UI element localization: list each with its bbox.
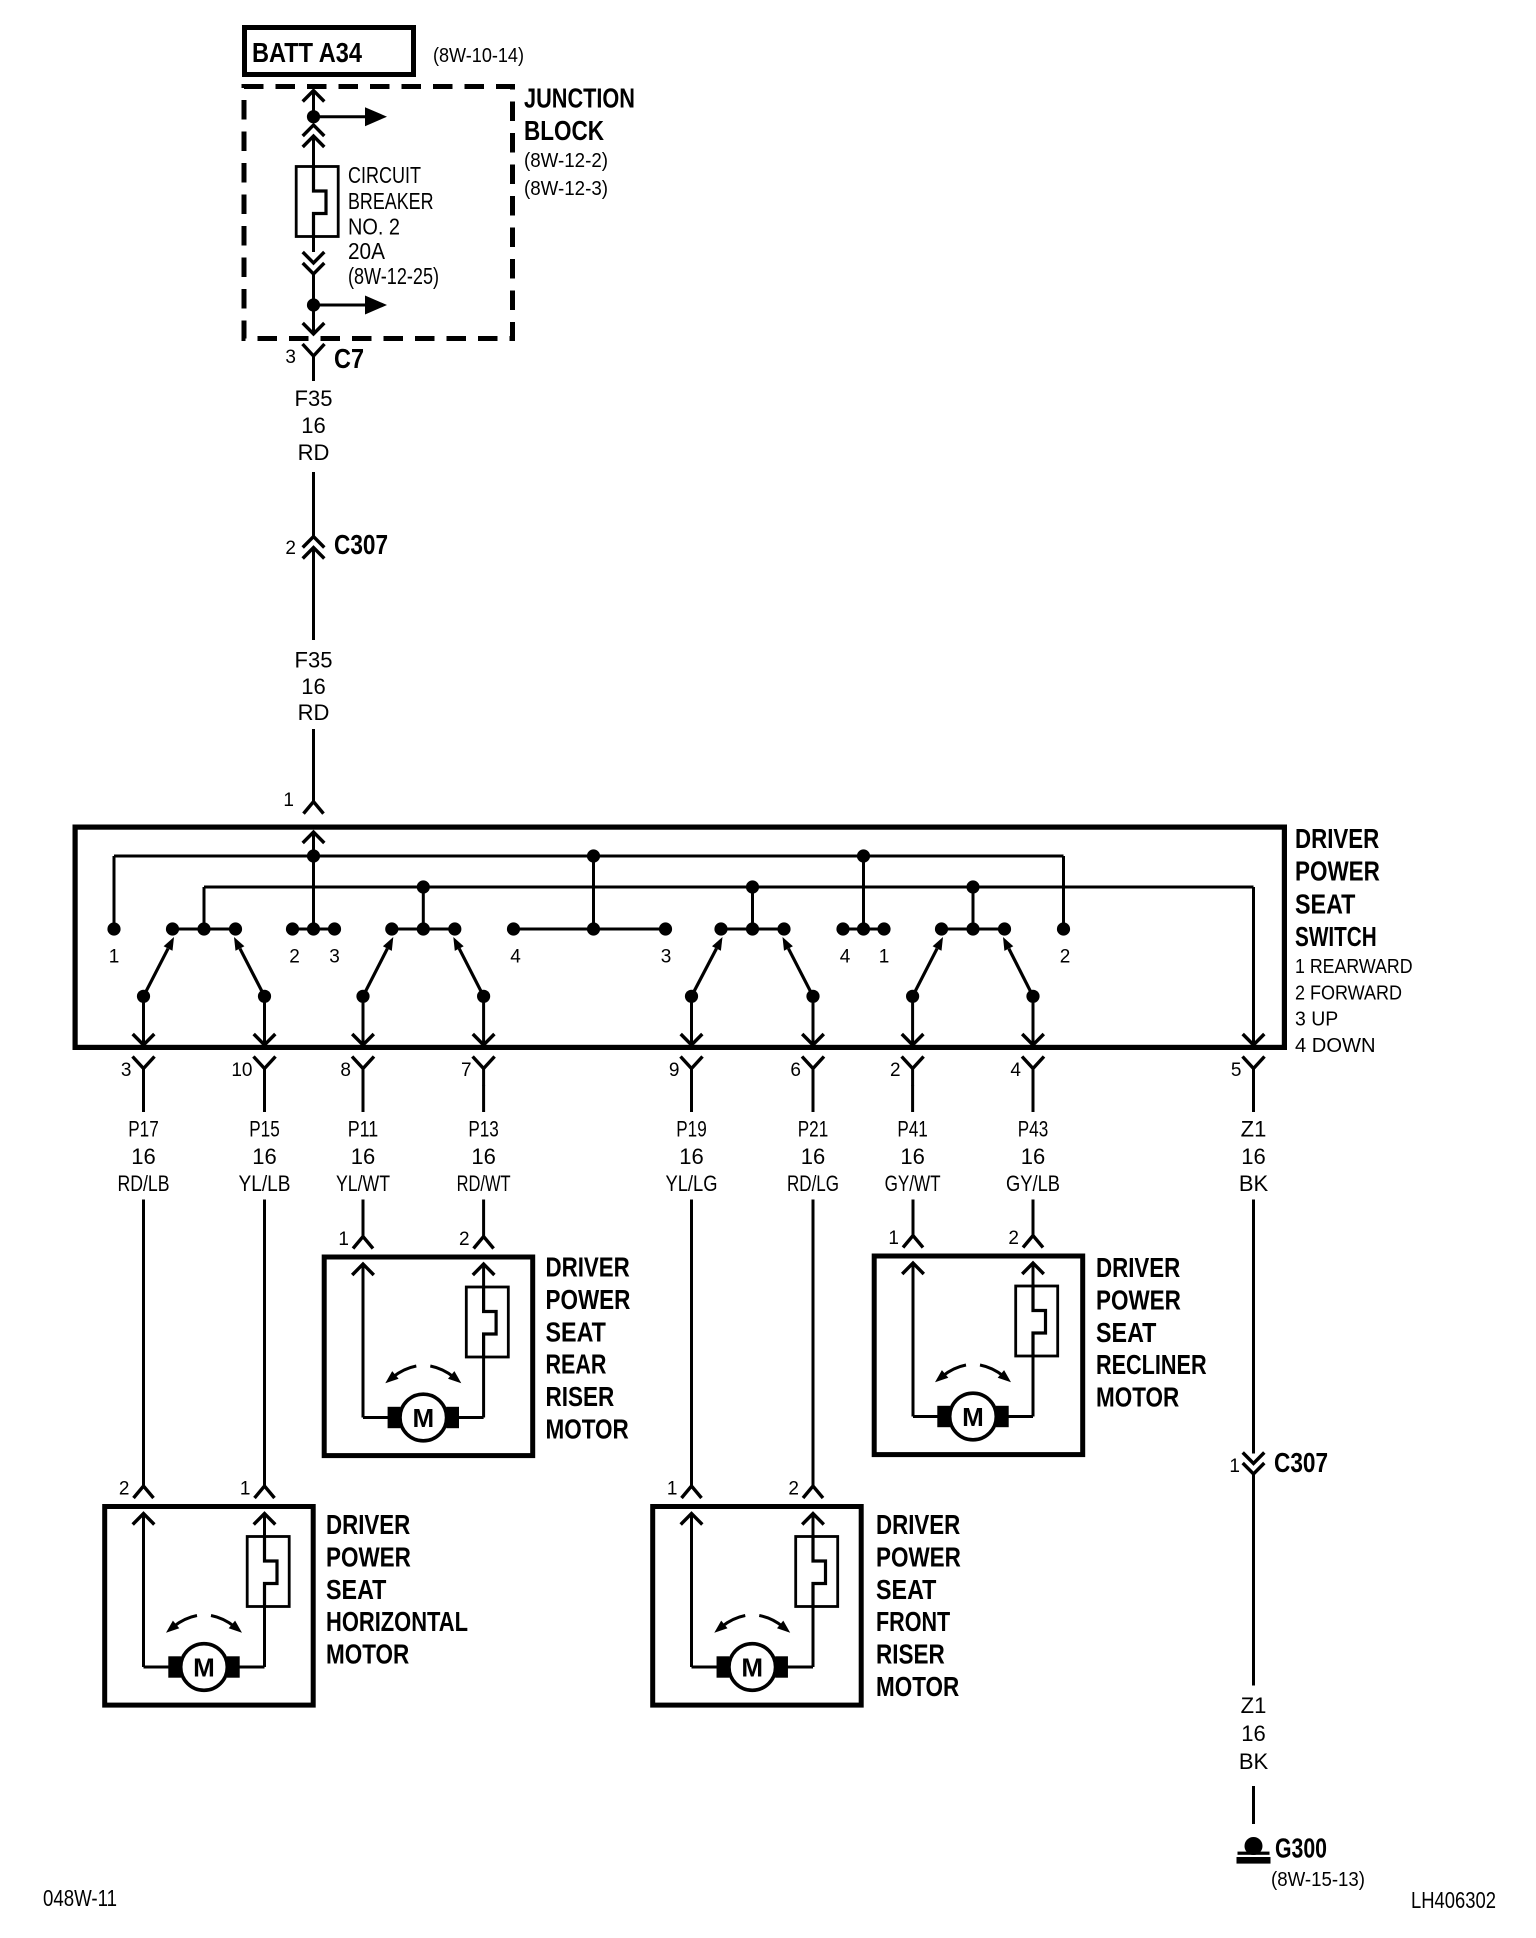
driver power seat recliner motor box <box>874 1256 1082 1455</box>
svg-text:RD/LB: RD/LB <box>118 1171 170 1196</box>
svg-text:CIRCUIT: CIRCUIT <box>348 162 421 188</box>
svg-text:POWER: POWER <box>546 1284 631 1315</box>
circuit breaker no. 2 20A symbol <box>296 167 338 237</box>
svg-text:16: 16 <box>679 1144 703 1169</box>
svg-text:16: 16 <box>301 413 325 438</box>
svg-text:(8W-12-2): (8W-12-2) <box>524 150 608 172</box>
svg-text:LH406302: LH406302 <box>1411 1887 1496 1913</box>
svg-text:P11: P11 <box>348 1117 379 1142</box>
svg-text:2: 2 <box>1060 947 1071 968</box>
in-block connector chevrons upper <box>303 125 325 136</box>
driver power seat recliner motor motor M <box>937 1406 950 1427</box>
switch wiper contacts - recliner section <box>942 928 1005 931</box>
switch pin exit wires with arrows <box>142 996 145 1045</box>
svg-text:RECLINER: RECLINER <box>1096 1349 1207 1380</box>
switch wiper contacts - rear riser section <box>392 928 455 931</box>
svg-text:DRIVER: DRIVER <box>546 1252 630 1283</box>
driver power seat horizontal motor pin 2 connector (wire ) <box>142 1200 145 1487</box>
svg-text:16: 16 <box>1241 1144 1265 1169</box>
svg-text:POWER: POWER <box>1295 856 1380 887</box>
svg-text:M: M <box>962 1402 984 1432</box>
svg-text:DRIVER: DRIVER <box>1096 1252 1180 1283</box>
svg-text:1: 1 <box>888 1228 899 1249</box>
svg-text:8: 8 <box>340 1060 351 1081</box>
svg-text:BK: BK <box>1239 1171 1269 1196</box>
svg-text:Z1: Z1 <box>1241 1693 1267 1718</box>
svg-text:2: 2 <box>285 538 296 559</box>
svg-text:RISER: RISER <box>876 1639 945 1670</box>
svg-text:GY/LB: GY/LB <box>1006 1171 1060 1196</box>
driver power seat switch box <box>75 827 1284 1047</box>
junction node dot upper <box>307 110 320 123</box>
svg-text:3: 3 <box>661 947 672 968</box>
svg-text:RD: RD <box>298 700 330 725</box>
svg-text:MOTOR: MOTOR <box>326 1639 409 1670</box>
switch wiper arrows and pivots <box>137 990 150 1003</box>
svg-text:3: 3 <box>285 347 296 368</box>
svg-text:BLOCK: BLOCK <box>524 115 604 146</box>
driver power seat front riser motor pin 1 connector (wire ) <box>690 1200 693 1487</box>
svg-text:16: 16 <box>351 1144 375 1169</box>
in-block connector chevrons lower <box>303 252 325 263</box>
svg-text:C307: C307 <box>1274 1447 1328 1478</box>
svg-text:P19: P19 <box>676 1117 707 1142</box>
driver power seat rear riser motor internal circuit breaker <box>466 1287 508 1357</box>
svg-text:9: 9 <box>669 1060 680 1081</box>
driver power seat front riser motor right wire lower <box>812 1607 815 1668</box>
driver power seat recliner motor pin 1 connector (wire ) <box>912 1200 915 1236</box>
driver power seat horizontal motor right wire lower <box>263 1607 266 1668</box>
svg-text:POWER: POWER <box>1096 1284 1181 1315</box>
switch bus row 2 <box>204 886 1254 889</box>
svg-text:3: 3 <box>121 1060 132 1081</box>
svg-text:P15: P15 <box>249 1117 280 1142</box>
branch arrow lower (feed to other circuits) <box>314 304 368 307</box>
svg-text:16: 16 <box>1241 1721 1265 1746</box>
wire to lower junction dot <box>312 274 315 305</box>
driver power seat horizontal motor rotation arrows <box>173 1616 197 1628</box>
switch stationary contact 1 (rearward) <box>107 922 120 935</box>
driver power seat horizontal motor internal circuit breaker <box>247 1537 289 1607</box>
svg-text:MOTOR: MOTOR <box>546 1414 629 1445</box>
svg-text:GY/WT: GY/WT <box>885 1171 941 1196</box>
junction block dashed box <box>244 87 513 339</box>
svg-text:1: 1 <box>667 1479 678 1500</box>
svg-text:M: M <box>412 1403 434 1433</box>
driver power seat rear riser motor box <box>324 1257 533 1456</box>
svg-text:M: M <box>741 1653 763 1683</box>
switch stationary contacts 4,3 (rear riser) <box>514 928 666 931</box>
driver power seat rear riser motor motor M <box>388 1407 401 1428</box>
svg-text:RD/WT: RD/WT <box>457 1171 511 1196</box>
svg-text:16: 16 <box>301 674 325 699</box>
svg-text:20A: 20A <box>348 238 386 264</box>
svg-text:RD/LG: RD/LG <box>787 1171 839 1196</box>
svg-text:C7: C7 <box>334 343 364 374</box>
svg-text:BK: BK <box>1239 1749 1269 1774</box>
svg-text:1: 1 <box>1229 1456 1240 1477</box>
switch stationary contacts 2,3 <box>293 928 335 931</box>
driver power seat horizontal motor right wire <box>254 1514 276 1525</box>
svg-text:2: 2 <box>119 1479 130 1500</box>
svg-text:DRIVER: DRIVER <box>1295 823 1379 854</box>
svg-text:MOTOR: MOTOR <box>876 1671 959 1702</box>
svg-text:1 REARWARD: 1 REARWARD <box>1295 956 1413 978</box>
svg-text:P21: P21 <box>798 1117 829 1142</box>
svg-text:POWER: POWER <box>876 1541 961 1572</box>
svg-text:SEAT: SEAT <box>1096 1317 1156 1348</box>
svg-text:JUNCTION: JUNCTION <box>524 83 635 114</box>
switch feed wire entering box <box>303 832 325 843</box>
battery feed BATT A34 box <box>245 28 414 75</box>
svg-text:(8W-12-25): (8W-12-25) <box>348 263 439 289</box>
branch arrow upper (feed to other circuits) <box>314 115 368 118</box>
wire Z1 16 BK lower segment <box>1252 1474 1255 1686</box>
svg-text:16: 16 <box>131 1144 155 1169</box>
svg-text:NO. 2: NO. 2 <box>348 214 400 240</box>
svg-text:3 UP: 3 UP <box>1295 1009 1338 1031</box>
switch wiper contacts - horizontal section <box>173 928 236 931</box>
svg-text:YL/LB: YL/LB <box>239 1171 291 1196</box>
svg-text:4 DOWN: 4 DOWN <box>1295 1035 1376 1057</box>
svg-text:M: M <box>193 1653 215 1683</box>
wire from BATT A34 into junction block with up arrow <box>303 91 325 102</box>
svg-text:(8W-15-13): (8W-15-13) <box>1271 1869 1365 1891</box>
svg-text:BREAKER: BREAKER <box>348 188 434 214</box>
svg-text:10: 10 <box>231 1060 252 1081</box>
svg-text:BATT A34: BATT A34 <box>252 37 362 68</box>
driver power seat recliner motor pin 2 connector <box>1032 1200 1035 1236</box>
svg-text:SEAT: SEAT <box>546 1316 606 1347</box>
svg-text:F35: F35 <box>295 648 333 673</box>
svg-text:1: 1 <box>879 947 890 968</box>
junction node dot lower <box>307 298 320 311</box>
driver power seat recliner motor internal circuit breaker <box>1016 1286 1058 1356</box>
svg-text:RISER: RISER <box>546 1381 615 1412</box>
driver power seat horizontal motor pin 1 connector <box>263 1200 266 1487</box>
svg-text:1: 1 <box>109 947 120 968</box>
svg-text:4: 4 <box>1010 1060 1021 1081</box>
svg-text:2: 2 <box>890 1060 901 1081</box>
driver power seat horizontal motor left wire <box>133 1514 155 1525</box>
svg-text:POWER: POWER <box>326 1541 411 1572</box>
switch stationary contacts 4,1 <box>843 928 884 931</box>
wire to circuit breaker <box>312 136 315 167</box>
svg-text:7: 7 <box>461 1060 472 1081</box>
svg-text:P17: P17 <box>128 1117 159 1142</box>
svg-text:YL/WT: YL/WT <box>336 1171 390 1196</box>
svg-text:YL/LG: YL/LG <box>666 1171 718 1196</box>
driver power seat rear riser motor right wire lower <box>482 1357 485 1418</box>
svg-text:(8W-12-3): (8W-12-3) <box>524 178 608 200</box>
driver power seat recliner motor right wire lower <box>1032 1356 1035 1417</box>
driver power seat front riser motor motor M <box>717 1656 730 1677</box>
svg-text:DRIVER: DRIVER <box>876 1509 960 1540</box>
svg-text:2: 2 <box>1008 1228 1019 1249</box>
svg-text:RD: RD <box>298 440 330 465</box>
driver power seat front riser motor rotation arrows <box>721 1616 745 1628</box>
svg-text:F35: F35 <box>295 386 333 411</box>
svg-text:FRONT: FRONT <box>876 1606 950 1637</box>
driver power seat front riser motor right wire <box>802 1514 824 1525</box>
svg-text:G300: G300 <box>1275 1833 1327 1864</box>
svg-text:Z1: Z1 <box>1241 1117 1267 1142</box>
ground wire Z1 from switch pin 5 <box>1252 1200 1255 1454</box>
svg-text:048W-11: 048W-11 <box>43 1885 117 1911</box>
svg-text:4: 4 <box>510 947 521 968</box>
svg-text:16: 16 <box>252 1144 276 1169</box>
svg-text:3: 3 <box>329 947 340 968</box>
svg-text:HORIZONTAL: HORIZONTAL <box>326 1606 468 1637</box>
svg-text:16: 16 <box>1021 1144 1045 1169</box>
svg-text:REAR: REAR <box>546 1349 607 1380</box>
driver power seat recliner motor right wire <box>1022 1263 1044 1274</box>
driver power seat rear riser motor pin 1 connector (wire ) <box>362 1200 365 1237</box>
svg-text:SWITCH: SWITCH <box>1295 921 1377 952</box>
svg-text:P41: P41 <box>897 1117 928 1142</box>
svg-text:1: 1 <box>240 1479 251 1500</box>
svg-text:4: 4 <box>840 947 851 968</box>
svg-text:16: 16 <box>801 1144 825 1169</box>
svg-text:2: 2 <box>788 1479 799 1500</box>
driver power seat recliner motor left wire <box>902 1263 924 1274</box>
svg-text:MOTOR: MOTOR <box>1096 1382 1179 1413</box>
svg-text:(8W-10-14): (8W-10-14) <box>433 45 524 67</box>
svg-text:SEAT: SEAT <box>876 1574 936 1605</box>
driver power seat rear riser motor right wire <box>473 1264 495 1275</box>
switch bus row 1 <box>114 855 1064 858</box>
switch wiper contacts - front riser section <box>721 928 784 931</box>
svg-text:1: 1 <box>283 790 294 811</box>
driver power seat horizontal motor motor M <box>168 1656 181 1677</box>
driver power seat rear riser motor pin 2 connector <box>482 1200 485 1237</box>
wire below breaker <box>312 237 315 253</box>
driver power seat horizontal motor box <box>105 1507 314 1706</box>
svg-text:5: 5 <box>1231 1060 1242 1081</box>
svg-text:16: 16 <box>471 1144 495 1169</box>
svg-text:C307: C307 <box>334 529 388 560</box>
svg-text:2: 2 <box>289 947 300 968</box>
svg-text:P13: P13 <box>468 1117 499 1142</box>
driver power seat front riser motor left wire <box>681 1514 703 1525</box>
driver power seat front riser motor pin 2 connector <box>812 1200 815 1487</box>
switch stationary contact 2 (forward) <box>1057 922 1070 935</box>
ground G300 symbol <box>1245 1837 1263 1855</box>
wire to block bottom with down arrow <box>312 305 315 334</box>
svg-text:6: 6 <box>790 1060 801 1081</box>
svg-text:SEAT: SEAT <box>1295 888 1355 919</box>
driver power seat rear riser motor rotation arrows <box>392 1366 416 1378</box>
switch pin 5 exit (row2 ground return) <box>1252 887 1255 1045</box>
svg-text:2 FORWARD: 2 FORWARD <box>1295 982 1402 1004</box>
driver power seat rear riser motor left wire <box>352 1264 374 1275</box>
wire F35 16 RD lower segment <box>312 548 315 641</box>
svg-text:P43: P43 <box>1018 1117 1049 1142</box>
svg-text:1: 1 <box>338 1229 349 1250</box>
driver power seat recliner motor rotation arrows <box>942 1365 966 1377</box>
svg-text:2: 2 <box>459 1229 470 1250</box>
svg-text:DRIVER: DRIVER <box>326 1509 410 1540</box>
driver power seat front riser motor box <box>653 1507 862 1706</box>
driver power seat front riser motor internal circuit breaker <box>796 1537 838 1607</box>
svg-text:16: 16 <box>900 1144 924 1169</box>
svg-text:SEAT: SEAT <box>326 1574 386 1605</box>
